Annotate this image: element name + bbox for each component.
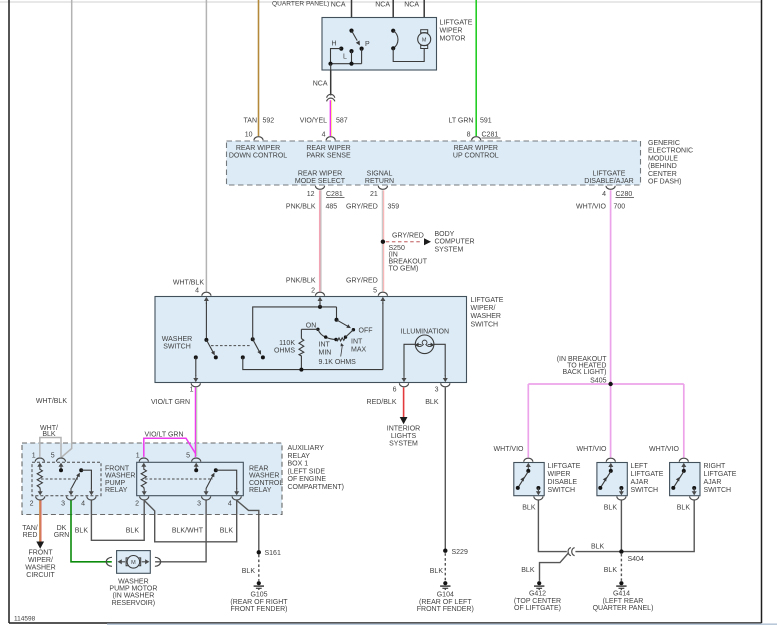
callout arrow 9.1K OHMS [341,346,343,357]
svg-text:6: 6 [393,387,397,394]
svg-text:(LEFT SIDE: (LEFT SIDE [288,468,326,475]
svg-text:DISABLE: DISABLE [548,479,578,486]
svg-text:GENERIC: GENERIC [648,140,680,147]
svg-text:5: 5 [186,453,190,460]
svg-text:359: 359 [388,204,400,211]
wire break connector (NCA to VIO/YEL) [327,94,335,97]
wire PNK/BLK 485 [319,190,321,291]
svg-text:1: 1 [190,387,194,394]
svg-text:WASHER: WASHER [25,565,55,572]
left liftgate ajar switch box [597,463,627,496]
wire pin1 down inside box [195,357,197,376]
svg-text:G412: G412 [529,591,546,598]
svg-text:3: 3 [197,501,201,508]
svg-text:RED/BLK: RED/BLK [367,399,397,406]
svg-text:BLK: BLK [220,527,234,534]
svg-text:UP CONTROL: UP CONTROL [453,153,499,160]
svg-text:PNK/BLK: PNK/BLK [286,204,316,211]
svg-text:PNK/BLK: PNK/BLK [286,278,316,285]
GEM pin 21 cup [378,186,387,190]
wire LT GRN 591 vertical [475,0,477,136]
svg-text:RIGHT: RIGHT [704,463,727,470]
svg-text:NCA: NCA [404,1,419,8]
svg-text:BODY: BODY [435,231,455,238]
svg-text:WHT/VIO: WHT/VIO [494,446,524,453]
wire rotary pivot feed [336,307,338,320]
rear washer control relay K2 box [137,462,244,495]
svg-text:VIO/YEL: VIO/YEL [300,118,327,125]
K2 pin 5 connector [192,458,201,470]
splice S250 [381,240,385,244]
svg-text:WIPER: WIPER [440,28,463,35]
svg-text:CENTER: CENTER [648,171,677,178]
wire BLK from pin 3 to S229 [444,387,446,550]
wire GRY/RED dashed branch to body computer [386,241,422,243]
generic electronic module box (dashed) [227,141,641,185]
pump motor brushes [126,558,128,566]
svg-text:RETURN: RETURN [365,178,394,185]
track node [334,338,337,341]
svg-text:OF LIFTGATE): OF LIFTGATE) [514,605,561,612]
svg-text:OF ENGINE: OF ENGINE [288,476,327,483]
GEM pin 12 cup [315,186,324,190]
K2 pin 2 connector [140,488,149,500]
wire park switch to motor bottom [393,48,424,61]
motor switch pivot node [349,29,353,33]
svg-text:592: 592 [263,118,275,125]
disable switch top contact [526,469,530,473]
svg-text:TAN: TAN [244,118,257,125]
svg-text:G104: G104 [437,592,454,599]
left ajar switch output contact [619,486,623,490]
junction pin 2 rail [318,305,322,309]
wire BLK from left ajar switch to S404 [620,500,622,551]
svg-text:RELAY: RELAY [249,487,272,494]
svg-text:12: 12 [307,191,315,198]
svg-text:WHT/BLK: WHT/BLK [173,280,204,287]
switch pin 6 connector [399,375,408,387]
svg-text:OF DASH): OF DASH) [648,179,681,186]
svg-text:SYSTEM: SYSTEM [389,441,418,448]
wire L contact to bottom rail [351,51,353,64]
GEM pin 4 C280 cup [606,186,615,190]
svg-text:S161: S161 [265,550,281,557]
resistor 110K OHMS [300,329,302,338]
K1 pin 3 connector [66,488,75,500]
motor M1 bottom brush [421,45,428,48]
svg-text:LIFTGATE: LIFTGATE [631,471,664,478]
svg-text:4: 4 [228,501,232,508]
svg-text:GRY/RED: GRY/RED [392,233,424,240]
svg-text:INTERIOR: INTERIOR [387,426,420,433]
ground G412 [534,581,544,590]
svg-text:GRN: GRN [54,532,70,539]
contact INT MAX [344,335,347,338]
svg-text:OFF: OFF [359,328,373,335]
washer switch 2 arm [253,339,260,352]
wire bottom rail of motor switch [331,63,362,65]
left ajar switch output stem [620,488,622,490]
svg-text:PUMP: PUMP [105,480,126,487]
wire NCA 2 into motor box [392,0,394,31]
svg-text:3: 3 [435,387,439,394]
svg-text:MAX: MAX [351,346,367,353]
wire P contact to bottom rail [361,49,363,64]
junction resistor bottom [299,368,303,372]
splice S161 [257,550,261,554]
wire BLK from disable switch [538,500,566,551]
wire pin4 down to washer switch contact [205,303,207,340]
svg-text:WASHER: WASHER [249,473,279,480]
wire H contact to bottom rail [331,49,342,64]
svg-text:LIFTGATE: LIFTGATE [593,171,626,178]
wire RED/BLK [403,387,405,417]
pump motor circle M [127,556,140,569]
right ajar switch top contact [682,469,686,473]
svg-text:QUARTER PANEL): QUARTER PANEL) [272,1,329,8]
svg-text:OHMS: OHMS [274,348,295,355]
svg-text:INT: INT [351,339,363,346]
svg-text:LIFTGATE: LIFTGATE [704,471,737,478]
switch pin 1 connector [191,375,200,387]
track to OFF contact [346,330,354,337]
svg-text:FRONT FENDER): FRONT FENDER) [230,606,287,613]
splice S229 [443,549,447,553]
svg-text:RELAY: RELAY [105,487,128,494]
svg-text:NCA: NCA [313,81,328,88]
svg-text:LIFTGATE: LIFTGATE [440,20,473,27]
svg-text:1: 1 [32,453,36,460]
disable switch lower-left contact [516,486,520,490]
svg-text:MIN: MIN [319,349,332,356]
svg-text:WHT/VIO: WHT/VIO [577,446,607,453]
svg-text:21: 21 [370,191,378,198]
pump connector arrow right [142,561,146,563]
svg-text:3: 3 [61,501,65,508]
wire WHT/VIO 700 long vertical [610,190,612,384]
K1 pin 5 connector [56,458,65,470]
K1 pin 4 connector [87,488,96,500]
wire WHT/VIO drop to disable switch [527,384,529,458]
lamp arrows [418,344,422,346]
wire pin2 stub [319,303,321,307]
svg-text:WHT/BLK: WHT/BLK [36,398,67,405]
right ajar switch pin in connector [679,458,688,470]
svg-text:BLK: BLK [75,527,89,534]
mechanical link dashes washer switches [211,345,251,347]
wire VIO/LT GRN main vertical [195,387,197,457]
svg-text:VIO/LT GRN: VIO/LT GRN [144,431,183,438]
wire VIO/YEL 587 [329,100,331,136]
svg-text:4: 4 [195,288,199,295]
svg-text:5: 5 [373,287,377,294]
svg-text:(IN WASHER: (IN WASHER [113,593,155,600]
switch pin 3 connector [441,375,450,387]
svg-text:AJAR: AJAR [704,479,722,486]
svg-text:1: 1 [136,453,140,460]
junction on bottom rail mid [349,62,353,66]
svg-text:BLK: BLK [242,568,256,575]
disable switch pin out connector [534,488,543,500]
K1 pin 2 connector [36,488,45,500]
svg-text:LT GRN: LT GRN [448,118,473,125]
svg-text:4: 4 [602,191,606,198]
svg-text:LIFTGATE: LIFTGATE [548,463,581,470]
wire NCA below motor box [330,71,332,96]
svg-text:9.1K OHMS: 9.1K OHMS [319,359,357,366]
pump connector cup right [155,557,161,566]
wire BLK dashed to G104 [444,553,446,581]
svg-text:REAR WIPER: REAR WIPER [306,145,350,152]
arrow to front wiper/washer circuit [36,542,44,549]
horizontal scrollbar thumb [107,623,777,625]
wire DK GRN from K1 pin 3 to washer pump [71,500,112,561]
K1 pin 5 contact node [59,468,63,472]
svg-text:4: 4 [322,132,326,139]
liftgate wiper/washer switch box S1 [155,297,467,383]
svg-text:AJAR: AJAR [631,479,649,486]
K1 wire arm to pin 3 [70,487,72,490]
washer switch 2 output contact [241,355,245,359]
washer switch 2 top contact [251,337,255,341]
K2 switch common contact [214,468,218,472]
wire washer switch 2 contact up and right to pin 2 rail [253,307,337,339]
pump connector arrow left [121,561,125,563]
contact H [339,47,343,51]
svg-text:ON: ON [306,322,317,329]
svg-text:REAR WIPER: REAR WIPER [236,145,280,152]
liftgate wiper disable switch box [514,463,544,496]
svg-text:SWITCH: SWITCH [704,487,732,494]
svg-text:P: P [365,41,370,48]
svg-text:TO GEM): TO GEM) [389,266,419,273]
right ajar switch arm [674,471,683,486]
wire BLK dashed to G414 [620,554,622,581]
contact INT MIN [324,335,327,338]
svg-text:ILLUMINATION: ILLUMINATION [401,329,450,336]
svg-text:BACK LIGHT): BACK LIGHT) [563,369,607,376]
svg-text:2: 2 [30,501,34,508]
washer switch 1 open contact [214,355,218,359]
svg-text:BLK: BLK [126,527,140,534]
splice S404 [619,549,623,553]
svg-text:FRONT: FRONT [28,550,53,557]
svg-text:MODE SELECT: MODE SELECT [295,178,346,185]
disable switch arm [519,471,528,486]
liftgate wiper motor box U1 [322,18,437,71]
svg-text:MODULE: MODULE [648,155,678,162]
wire WHT/VIO distribution rail [528,383,684,385]
svg-text:NCA: NCA [331,1,346,8]
svg-text:WIPER/: WIPER/ [471,305,496,312]
wire GRY/RED 359 [382,190,384,291]
svg-text:4: 4 [81,501,85,508]
svg-text:COMPARTMENT): COMPARTMENT) [288,484,345,491]
GEM pin 4 cup [326,137,335,141]
svg-text:110K: 110K [279,340,295,347]
svg-text:CONTROL: CONTROL [249,480,283,487]
ground G414 [616,581,626,590]
svg-text:2: 2 [311,287,315,294]
park switch upper node [391,29,395,33]
svg-text:WHT/VIO: WHT/VIO [649,446,679,453]
svg-text:BLK/WHT: BLK/WHT [172,527,204,534]
svg-text:DISABLE/AJAR: DISABLE/AJAR [584,178,633,185]
svg-text:WASHER: WASHER [162,336,192,343]
frame right border [761,0,763,623]
wire BLK from right ajar switch [621,500,694,551]
K1 pin 1 connector [35,458,44,470]
contact L [349,49,353,53]
lamp ILLUMINATION leads [404,344,415,376]
svg-text:CIRCUIT: CIRCUIT [26,572,55,579]
lamp ILLUMINATION circle [415,335,434,354]
GEM pin 8 cup [472,137,481,141]
svg-text:BLK: BLK [430,568,444,575]
svg-text:GRY/RED: GRY/RED [346,204,378,211]
svg-text:SYSTEM: SYSTEM [435,246,464,253]
right ajar switch pin out connector [690,488,699,500]
wire TAN/RED from K1 pin 2 [39,500,41,541]
svg-text:LIGHTS: LIGHTS [391,433,417,440]
svg-text:FRONT FENDER): FRONT FENDER) [417,606,474,613]
svg-text:H: H [332,41,337,48]
K2 wire arm to pin 3 [205,487,207,490]
svg-text:WASHER: WASHER [105,473,135,480]
K1 coil [37,469,42,488]
wire NCA 3 into motor box [423,0,425,30]
contact OFF [352,328,355,331]
resistor 9.1K zigzag on track [336,337,346,341]
svg-text:PUMP MOTOR: PUMP MOTOR [109,586,157,593]
rotary resistive track arc [318,329,336,339]
svg-text:REAR WIPER: REAR WIPER [298,171,342,178]
svg-text:SWITCH: SWITCH [548,487,576,494]
svg-text:S229: S229 [452,549,468,556]
svg-text:RED: RED [23,532,38,539]
wire BLK K2 pin4 diagonal to S161 [237,500,259,552]
frame bottom border [9,622,762,624]
front washer pump relay K1 box (dashed) [32,462,101,495]
svg-text:S404: S404 [628,556,644,563]
svg-text:G105: G105 [250,592,267,599]
K2 switch arm [206,475,213,489]
svg-text:587: 587 [336,118,348,125]
wire WHT/BLK loop pin5 to pin1 [40,438,61,457]
svg-text:M: M [422,38,427,44]
splice S405 [608,382,612,386]
svg-text:BLK: BLK [521,567,535,574]
right liftgate ajar switch box [670,463,700,496]
washer switch 1 arm [206,340,213,353]
svg-text:ELECTRONIC: ELECTRONIC [648,148,693,155]
svg-text:GRY/RED: GRY/RED [346,278,378,285]
svg-text:SWITCH: SWITCH [631,487,659,494]
svg-text:SWITCH: SWITCH [163,344,191,351]
svg-text:RELAY: RELAY [288,453,311,460]
svg-text:5: 5 [51,453,55,460]
wire ON contact to 110K resistor top [301,328,318,330]
svg-text:WHT/VIO: WHT/VIO [576,204,606,211]
ground G105 [254,581,264,590]
K2 pin 1 connector [139,458,148,470]
svg-text:DOWN CONTROL: DOWN CONTROL [229,153,287,160]
park switch lower node [391,46,395,50]
svg-text:BOX 1: BOX 1 [288,461,309,468]
svg-text:SIGNAL: SIGNAL [367,171,393,178]
wire washer switch 2 output down to bottom rail [243,357,383,369]
frame top hairline [0,1,762,3]
wire WHT/BLK second vertical to washer switch pin 4 [205,0,207,292]
svg-text:LIFTGATE: LIFTGATE [471,297,504,304]
K1 switch arm [71,475,78,489]
contact ON [316,328,319,331]
K1 switch common contact [79,468,83,472]
wire WHT/BLK left vertical from top [71,0,73,449]
svg-text:REAR WIPER: REAR WIPER [454,145,498,152]
K2 pin 3 connector [202,488,211,500]
ground G104 [440,581,450,590]
K2 wire contact to pin 4 [216,470,237,489]
svg-text:INT: INT [319,342,331,349]
svg-text:BLK: BLK [604,567,618,574]
disable switch output contact [536,486,540,490]
right ajar switch lower-left contact [671,486,675,490]
wire WHT/VIO drop to left ajar switch [610,384,612,458]
svg-text:PARK SENSE: PARK SENSE [306,153,351,160]
switch pin 2 connector [315,292,324,304]
wire BLK branch to G412 [540,553,569,581]
K2 coil [141,469,146,488]
svg-text:LEFT: LEFT [631,463,649,470]
svg-text:REAR: REAR [249,466,268,473]
svg-text:(BEHIND: (BEHIND [648,163,677,170]
disable switch pin in connector [524,458,533,470]
junction on bottom rail left [328,62,332,66]
frame left border [8,0,10,623]
left ajar switch pin in connector [606,458,615,470]
svg-text:MOTOR: MOTOR [440,36,466,43]
rotary switch arm to OFF [337,320,349,327]
K2 pin 4 connector [232,488,241,500]
wire BLK connector to S404 [575,551,621,553]
svg-text:C281: C281 [326,191,343,198]
right ajar switch output stem [693,488,695,490]
svg-text:COMPUTER: COMPUTER [435,239,475,246]
disable switch output stem [537,488,539,490]
wire WHT/VIO drop to right ajar switch [683,384,685,458]
svg-text:M: M [131,560,136,566]
svg-text:114598: 114598 [14,616,36,623]
arrow to interior lights system [400,417,408,424]
wire bottom rail up to pin 5 [382,303,384,370]
svg-text:8: 8 [467,132,471,139]
wire BLK K2 pin2 loop to K2 pin4 [144,500,237,541]
inline connector arcs [568,548,571,556]
washer pump motor box [117,551,151,574]
svg-text:BLK: BLK [591,544,605,551]
pump connector cup left [106,557,112,566]
wire BLK dashed to G105 [258,555,260,581]
svg-text:NCA: NCA [375,1,390,8]
park switch arc contact [393,31,398,49]
left ajar switch pin out connector [617,488,626,500]
left ajar switch lower-left contact [598,486,602,490]
wire TAN 592 vertical [258,0,260,136]
svg-text:SWITCH: SWITCH [471,321,499,328]
svg-text:AUXILIARY: AUXILIARY [288,445,325,452]
wire BLK K1 pin4 to K2 pin2 [91,500,144,540]
